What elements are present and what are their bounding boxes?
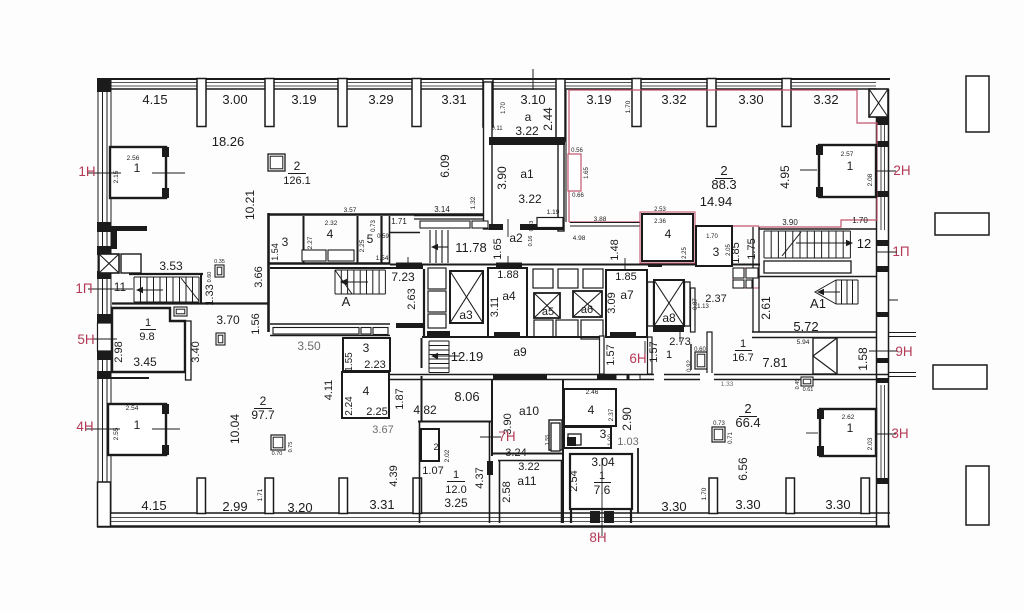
svg-text:2.46: 2.46 — [586, 389, 599, 396]
svg-text:11.78: 11.78 — [455, 240, 487, 255]
stair A1 treads — [815, 280, 858, 304]
svg-text:3.32: 3.32 — [813, 92, 838, 107]
room a1 bottom wall — [489, 224, 564, 230]
svg-text:3.30: 3.30 — [738, 92, 763, 107]
right wall solid ticks — [877, 117, 889, 484]
svg-text:4: 4 — [363, 384, 370, 398]
svg-text:3.32: 3.32 — [661, 92, 686, 107]
leader 2H — [800, 170, 896, 171]
left exterior wall glazing — [98, 79, 111, 513]
svg-text:2.25: 2.25 — [359, 239, 366, 252]
room 1 of unit 2H — [816, 145, 876, 197]
svg-text:3.31: 3.31 — [441, 92, 466, 107]
svg-text:a11: a11 — [517, 474, 536, 488]
svg-text:1.00: 1.00 — [608, 434, 614, 446]
svg-text:6Н: 6Н — [629, 351, 646, 366]
svg-text:2.37: 2.37 — [608, 408, 615, 421]
svg-text:1: 1 — [145, 317, 151, 329]
stair 12 landing — [764, 261, 851, 273]
svg-text:2.23: 2.23 — [364, 359, 385, 371]
svg-text:3.53: 3.53 — [159, 259, 183, 273]
svg-text:4: 4 — [327, 227, 334, 241]
tick for dim 1.65 — [507, 219, 509, 237]
tiny dims near a1 shaft — [528, 209, 560, 246]
svg-text:3.29: 3.29 — [368, 92, 393, 107]
stair 12 treads — [764, 231, 850, 258]
leader 7H — [480, 436, 501, 438]
svg-text:a10: a10 — [519, 404, 539, 418]
svg-text:0.45: 0.45 — [795, 379, 801, 390]
svg-text:5: 5 — [367, 232, 374, 246]
svg-text:0.75: 0.75 — [288, 442, 294, 453]
top dimension row — [142, 92, 838, 107]
svg-text:2: 2 — [260, 394, 267, 408]
leader 9H — [869, 350, 897, 352]
svg-text:18.26: 18.26 — [212, 134, 245, 149]
lower corridor wall — [390, 374, 888, 380]
wall left of 6H closet — [690, 344, 692, 370]
ramp triangle near 9H — [813, 338, 837, 374]
svg-text:2: 2 — [294, 159, 301, 173]
svg-text:0.61: 0.61 — [803, 387, 814, 393]
tiny pier dims — [257, 100, 708, 501]
tick above room a — [532, 69, 534, 90]
tiny dims red shaft — [571, 148, 590, 199]
wall between a7 and a8 — [648, 282, 654, 326]
dark block above a11 — [567, 437, 576, 446]
room a11 labels — [501, 461, 540, 503]
corridor top wall with boxes — [414, 216, 488, 229]
closet 0.60 of 6H — [695, 352, 707, 369]
room 1 of unit 4H — [108, 404, 169, 455]
svg-text:a2: a2 — [509, 231, 523, 245]
elevator a6 — [573, 291, 602, 317]
room a2 labels — [492, 231, 523, 260]
svg-text:1.54: 1.54 — [270, 243, 280, 261]
svg-text:1: 1 — [847, 421, 854, 435]
room 7.6 of unit 8H — [570, 454, 632, 523]
svg-text:4: 4 — [588, 403, 595, 417]
room 9.8 of unit 5H outline — [112, 308, 185, 372]
tick for 1.88 — [507, 256, 509, 269]
stair 11 arrow — [136, 287, 163, 293]
svg-text:2.53: 2.53 — [654, 207, 666, 213]
svg-text:3Н: 3Н — [891, 426, 908, 441]
red boundary left side — [569, 90, 759, 226]
svg-text:2.54: 2.54 — [568, 470, 580, 491]
top-right corner shaft with X — [869, 89, 888, 117]
svg-text:3.31: 3.31 — [369, 497, 394, 512]
svg-text:12.0: 12.0 — [445, 484, 466, 496]
svg-text:0.66: 0.66 — [572, 193, 584, 199]
left wall of rooms a a1 — [484, 82, 493, 229]
svg-text:3: 3 — [713, 245, 720, 259]
room 4 middle — [342, 372, 389, 418]
mini flight lower — [429, 341, 449, 373]
svg-text:1.48: 1.48 — [609, 239, 621, 260]
svg-text:2.15: 2.15 — [113, 170, 120, 183]
svg-text:5.72: 5.72 — [793, 319, 818, 334]
shaft box right of a1 — [537, 218, 563, 228]
dark bar under a8 — [653, 326, 684, 332]
svg-text:4.98: 4.98 — [573, 235, 586, 242]
svg-text:0.73: 0.73 — [371, 220, 377, 232]
svg-text:1: 1 — [134, 161, 141, 175]
closet in a10 — [549, 420, 562, 450]
svg-text:a1: a1 — [520, 167, 534, 181]
room 7.6 labels — [568, 455, 615, 497]
svg-text:3.45: 3.45 — [133, 355, 157, 369]
wall below stair 12 landing — [759, 276, 877, 278]
svg-text:1: 1 — [666, 349, 672, 361]
svg-text:3.11: 3.11 — [489, 297, 501, 318]
mini flight upper arrow — [431, 244, 448, 250]
external rectangle top right — [966, 76, 989, 132]
shaft boxes near stair 12 — [733, 268, 758, 288]
svg-text:5.94: 5.94 — [797, 339, 810, 346]
external rectangle lower middle right — [933, 365, 987, 389]
right exterior wall — [877, 89, 889, 527]
svg-text:1.87: 1.87 — [394, 388, 406, 409]
svg-text:3.19: 3.19 — [291, 92, 316, 107]
unit 66.4 labels — [620, 401, 761, 481]
svg-text:0.16: 0.16 — [528, 236, 534, 247]
left wall solid ticks — [97, 79, 111, 379]
svg-text:1.56: 1.56 — [250, 313, 262, 334]
wall stub under room 1H — [110, 226, 147, 231]
svg-text:A: A — [342, 294, 351, 309]
svg-text:3: 3 — [282, 235, 289, 249]
top wall chunk right of room a — [556, 79, 565, 141]
corridor 8.06 labels — [394, 388, 480, 417]
room 1 of unit 3H — [817, 409, 876, 456]
stair A1 arrow — [817, 289, 840, 295]
svg-text:1.75: 1.75 — [746, 238, 758, 259]
svg-text:a9: a9 — [513, 345, 527, 359]
svg-text:14.94: 14.94 — [700, 194, 733, 209]
left wall of stair block — [753, 227, 759, 332]
apartment 2 labels — [700, 163, 792, 209]
svg-text:1: 1 — [847, 159, 854, 173]
external rectangle upper middle right — [935, 213, 989, 235]
room a4 — [488, 268, 527, 337]
svg-text:1: 1 — [740, 338, 746, 350]
apartment 2 bottom boundary wall — [570, 216, 641, 242]
svg-text:a5: a5 — [542, 306, 554, 318]
room 3 small top row — [270, 216, 304, 263]
vent on room 9.8 — [174, 307, 187, 316]
left wall bottom solid section — [98, 482, 111, 527]
svg-text:3.04: 3.04 — [591, 455, 615, 469]
svg-text:1.33: 1.33 — [721, 381, 734, 388]
svg-text:2.03: 2.03 — [867, 437, 874, 450]
wall right of a8 — [685, 282, 691, 326]
mini flight upper — [430, 230, 448, 263]
black block between 12.0 and a11 — [487, 461, 493, 475]
svg-text:0.53: 0.53 — [529, 221, 535, 232]
svg-text:0.56: 0.56 — [571, 148, 583, 154]
bottom facade piers — [197, 478, 870, 514]
leader 8H vertical — [601, 458, 603, 536]
svg-text:4: 4 — [665, 227, 672, 241]
top wall chunk left of room a — [483, 79, 493, 127]
svg-text:2.44: 2.44 — [541, 107, 555, 131]
svg-text:2: 2 — [744, 401, 751, 416]
svg-text:4.11: 4.11 — [323, 380, 335, 401]
stair block bottom wall — [752, 332, 877, 338]
room a1 labels — [495, 166, 542, 206]
room 5 top row — [359, 216, 389, 263]
labels room 9.8 — [113, 317, 202, 369]
svg-text:0.35: 0.35 — [214, 259, 225, 265]
elevator a5 — [534, 293, 560, 318]
svg-text:7.23: 7.23 — [391, 270, 415, 284]
svg-text:1.57: 1.57 — [648, 341, 660, 362]
svg-text:3.70: 3.70 — [216, 313, 240, 327]
svg-text:a6: a6 — [581, 304, 593, 316]
right wall of rooms a a1 — [558, 141, 564, 231]
bottom dimension row — [141, 497, 850, 515]
room 3 apartment 2 — [696, 226, 732, 266]
svg-text:a4: a4 — [502, 289, 516, 303]
red boundary right side — [759, 90, 877, 288]
svg-text:1.32: 1.32 — [470, 196, 477, 209]
leader 3H — [806, 433, 896, 434]
svg-text:3: 3 — [600, 427, 607, 441]
small closet left of 7.6 — [545, 423, 560, 451]
wall right of 6H closet — [707, 332, 712, 374]
stair 12 arrow — [796, 240, 853, 246]
elevator a3 — [450, 271, 483, 323]
vent shaft room 126.1 — [268, 154, 285, 171]
svg-text:1.88: 1.88 — [497, 269, 518, 281]
wall between lobby and lift boxes — [423, 269, 425, 338]
svg-text:1.65: 1.65 — [492, 238, 504, 259]
svg-text:2.27: 2.27 — [307, 236, 314, 249]
svg-text:3.30: 3.30 — [735, 497, 760, 512]
dark bars on lift block top — [396, 262, 662, 268]
corridor a9 labels — [451, 344, 617, 365]
svg-text:4.15: 4.15 — [141, 498, 166, 513]
svg-text:3.10: 3.10 — [520, 92, 545, 107]
svg-text:1Н: 1Н — [78, 164, 95, 179]
svg-text:1П: 1П — [892, 244, 909, 259]
corridor 7.81 labels — [762, 347, 870, 371]
svg-text:1: 1 — [453, 469, 459, 481]
tick for 1.85 a7 — [624, 258, 626, 270]
unit 6H labels — [648, 336, 706, 372]
dark wall bar above lobby 7.23 — [396, 264, 423, 269]
vent room 97.7 — [271, 435, 294, 457]
room a7 — [606, 270, 647, 337]
svg-text:2.56: 2.56 — [127, 155, 140, 162]
tick crossing corridor bottom — [407, 257, 409, 269]
leader 4H — [85, 428, 180, 430]
unit 6H hallway walls — [600, 332, 653, 374]
white box beside left shaft — [121, 254, 141, 273]
room 4 top row — [307, 207, 358, 263]
lobby 2.37 walls — [691, 288, 727, 332]
svg-text:3.22: 3.22 — [518, 192, 542, 206]
boxes left of lift a3 — [428, 268, 446, 328]
room 12.0 labels — [388, 465, 486, 510]
corridor step wall — [390, 232, 420, 234]
svg-text:0.60: 0.60 — [207, 272, 213, 283]
room a labels — [491, 102, 555, 138]
wall below stair 11 — [112, 302, 268, 304]
svg-text:4.82: 4.82 — [413, 403, 437, 417]
svg-text:2.08: 2.08 — [867, 173, 874, 186]
svg-text:88.3: 88.3 — [711, 177, 736, 192]
svg-text:9.8: 9.8 — [139, 331, 154, 343]
leader 5H — [88, 338, 117, 340]
narrow wall right of room 9.8 — [186, 321, 192, 380]
vent near 7.81 — [795, 377, 813, 393]
wall below room 126.1 — [268, 213, 490, 216]
svg-text:3.50: 3.50 — [297, 339, 321, 353]
svg-text:2.62: 2.62 — [842, 414, 855, 421]
svg-text:2.02: 2.02 — [444, 449, 451, 462]
svg-text:3.30: 3.30 — [661, 499, 686, 514]
red shaft box on left boundary — [568, 154, 581, 191]
wall between a10 and unit 66.4 — [562, 380, 564, 523]
leader line 1H — [87, 172, 185, 174]
room 3 unit 66.4 — [564, 427, 614, 448]
svg-text:2.25: 2.25 — [366, 406, 387, 418]
svg-text:3.09: 3.09 — [606, 292, 618, 313]
svg-text:6.09: 6.09 — [438, 154, 452, 178]
external rectangle bottom right — [966, 466, 989, 525]
svg-text:1.85: 1.85 — [615, 271, 636, 283]
svg-text:2.25: 2.25 — [682, 247, 688, 259]
svg-text:3.14: 3.14 — [434, 205, 450, 214]
left wall of corridor a9 and 8.06 — [421, 338, 423, 421]
svg-text:a3: a3 — [459, 308, 473, 322]
closet room 3 unit 66.4 — [568, 434, 581, 445]
wall above lobby 3.53 — [129, 273, 203, 275]
leader 1P right — [876, 251, 897, 253]
labels room 2 97.7 — [228, 394, 275, 444]
svg-text:1.58: 1.58 — [856, 347, 870, 371]
boxes below lifts a5 a6 — [534, 320, 603, 339]
svg-text:1.85: 1.85 — [730, 242, 742, 263]
thick wall between a and a1 — [489, 137, 565, 145]
room 1 of unit 1H — [110, 147, 169, 198]
stair A hall top wall — [270, 267, 396, 269]
svg-text:2.99: 2.99 — [222, 499, 247, 514]
bottom wall of rooms 345 — [268, 262, 390, 264]
svg-text:11: 11 — [114, 280, 127, 294]
svg-text:3.00: 3.00 — [222, 92, 247, 107]
svg-text:1: 1 — [134, 418, 141, 432]
svg-text:3.22: 3.22 — [518, 461, 539, 473]
svg-text:1П: 1П — [75, 281, 92, 296]
svg-text:1.70: 1.70 — [701, 487, 708, 500]
svg-text:8Н: 8Н — [589, 530, 606, 545]
svg-text:7.81: 7.81 — [762, 355, 787, 370]
svg-text:12: 12 — [857, 236, 871, 251]
svg-text:2: 2 — [720, 163, 727, 178]
tick for 2.73 — [679, 330, 681, 342]
mini flight lower arrow — [431, 353, 460, 359]
boxes on 6H bottom wall — [616, 375, 640, 380]
stair A arrow — [340, 279, 368, 285]
svg-text:0.71: 0.71 — [728, 432, 734, 444]
stair 11 right wall — [200, 274, 202, 303]
red boundary of apartment 2 top — [569, 89, 857, 91]
stub walls outside 9H — [888, 300, 916, 377]
red box around shaft boxes near stair 12 — [733, 268, 759, 288]
svg-text:97.7: 97.7 — [251, 408, 275, 422]
boxes above lifts a5 a6 — [533, 269, 603, 288]
svg-text:4.95: 4.95 — [778, 165, 792, 189]
room a11 walls — [498, 461, 563, 524]
svg-text:3.22: 3.22 — [515, 124, 539, 138]
vent near 3.70 — [216, 333, 225, 345]
svg-text:10.04: 10.04 — [228, 414, 242, 444]
svg-text:10.21: 10.21 — [243, 190, 257, 220]
svg-text:2: 2 — [433, 442, 438, 452]
wall below room 3 unit 66.4 — [637, 448, 639, 513]
svg-text:3.90: 3.90 — [495, 166, 509, 190]
svg-text:1.71: 1.71 — [257, 488, 264, 501]
svg-text:3.88: 3.88 — [594, 216, 607, 223]
svg-text:4.39: 4.39 — [388, 465, 400, 486]
svg-text:2.36: 2.36 — [654, 219, 666, 225]
svg-text:a8: a8 — [662, 311, 676, 325]
svg-text:0.11: 0.11 — [491, 126, 503, 132]
svg-text:0.70: 0.70 — [272, 451, 283, 457]
room a10 labels — [502, 404, 539, 459]
svg-text:16.7: 16.7 — [732, 352, 753, 364]
room 4 apartment 2 — [640, 207, 695, 263]
svg-text:3.67: 3.67 — [372, 424, 393, 436]
label room 1 1H — [113, 155, 141, 183]
svg-text:126.1: 126.1 — [283, 175, 311, 187]
svg-text:A1: A1 — [810, 296, 826, 311]
svg-text:2.58: 2.58 — [501, 481, 513, 502]
svg-text:9Н: 9Н — [895, 344, 912, 359]
svg-text:1.70: 1.70 — [501, 102, 507, 114]
vent near 3.53 — [207, 259, 225, 282]
svg-text:3.40: 3.40 — [190, 341, 202, 362]
svg-text:2.32: 2.32 — [325, 220, 338, 227]
svg-text:1.57: 1.57 — [605, 344, 617, 365]
short wall piece below stub — [111, 231, 117, 249]
dims right of room 3 — [730, 238, 758, 263]
svg-text:4.15: 4.15 — [142, 92, 167, 107]
dark bar under left boxes — [427, 331, 450, 337]
labels room 1 4H — [113, 405, 141, 440]
label 1H — [78, 164, 95, 179]
svg-text:a7: a7 — [620, 288, 634, 302]
svg-text:66.4: 66.4 — [735, 415, 760, 430]
dark wall bar below lobby 7.23 — [396, 323, 423, 328]
svg-text:1.55: 1.55 — [344, 352, 355, 372]
svg-text:1.19: 1.19 — [547, 209, 560, 216]
svg-text:1.65: 1.65 — [584, 167, 590, 179]
svg-text:1.13: 1.13 — [697, 304, 709, 310]
closet in room 12.0 — [421, 429, 451, 462]
svg-text:5Н: 5Н — [77, 332, 94, 347]
svg-text:1.70: 1.70 — [625, 100, 632, 113]
svg-text:3.57: 3.57 — [344, 207, 357, 214]
svg-text:3.90: 3.90 — [782, 218, 798, 227]
svg-text:1.70: 1.70 — [706, 234, 718, 240]
exterior bottom glazing band — [97, 513, 890, 527]
room 3 middle — [343, 338, 390, 372]
svg-text:1.07: 1.07 — [422, 465, 443, 477]
